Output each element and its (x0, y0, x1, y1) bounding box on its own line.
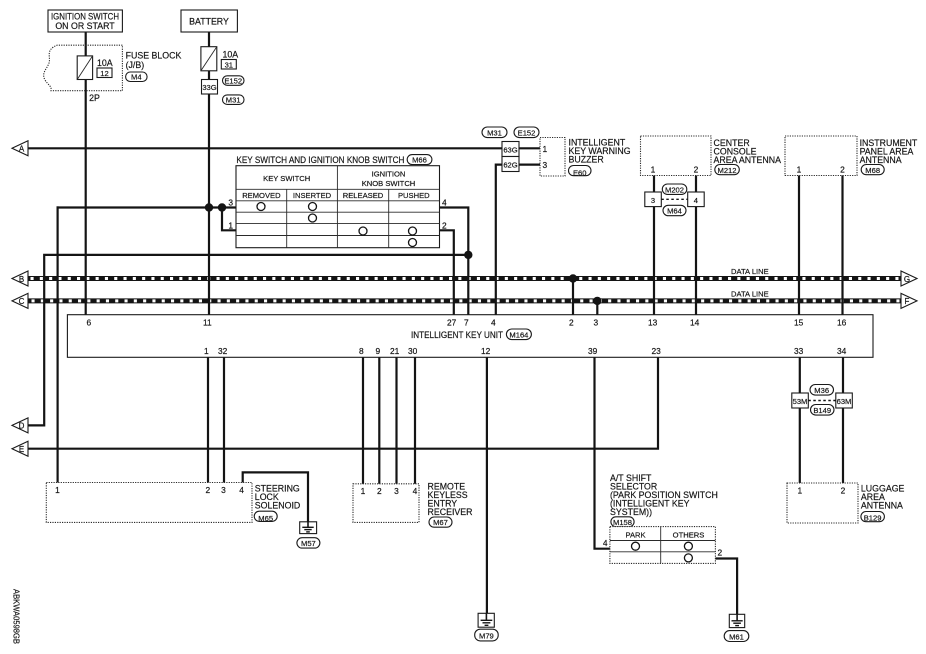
wire key switch pin 3 feed (58, 206, 236, 208)
svg-text:M164: M164 (509, 330, 528, 339)
connectors 63G 62G (482, 127, 539, 172)
svg-text:21: 21 (390, 346, 400, 356)
svg-text:M31: M31 (226, 96, 241, 105)
svg-text:11: 11 (203, 318, 212, 328)
intelligent key unit box M164 (67, 315, 873, 358)
svg-text:4: 4 (413, 486, 418, 496)
svg-text:8: 8 (359, 346, 364, 356)
svg-text:RECEIVER: RECEIVER (428, 507, 473, 517)
svg-text:E152: E152 (224, 77, 242, 86)
svg-text:G: G (904, 275, 910, 284)
wire A-line to 63G (28, 147, 502, 149)
wire key switch pin 4 down to IKU pin 7 (440, 208, 469, 315)
svg-text:3: 3 (543, 160, 548, 170)
svg-text:4: 4 (694, 196, 698, 205)
wire D-arrow riser to pin7 branch (28, 255, 468, 426)
pin 2 label shift selector (718, 548, 723, 558)
svg-text:M66: M66 (412, 156, 427, 165)
junction dot data line 1 at pin 2 (569, 274, 577, 282)
connector arrow C (12, 293, 28, 308)
label FUSE BLOCK (J/B) M4 (126, 51, 182, 82)
wire E-line to IKU pin 23 (28, 357, 658, 448)
svg-text:15: 15 (794, 318, 804, 328)
svg-text:32: 32 (218, 346, 228, 356)
svg-text:9: 9 (376, 346, 381, 356)
svg-text:10A: 10A (223, 50, 239, 60)
svg-text:1: 1 (55, 485, 60, 495)
svg-text:INSERTED: INSERTED (293, 191, 332, 200)
wire key switch pin 2 down to IKU pin 27 (440, 230, 454, 314)
label DATA LINE 1 (731, 267, 769, 276)
pin 4 label key switch (442, 198, 447, 208)
svg-text:7: 7 (464, 318, 469, 328)
svg-text:2P: 2P (89, 93, 100, 103)
svg-text:3: 3 (221, 485, 226, 495)
ground M79 (475, 613, 499, 641)
wire IKU pin 39 to shift selector pin 4 (595, 357, 610, 548)
wire shift selector pin 2 to ground M61 (715, 559, 737, 615)
intelligent key warning buzzer E60 (540, 138, 631, 178)
svg-text:(J/B): (J/B) (126, 60, 145, 70)
center console area antenna M212 (641, 136, 782, 176)
svg-text:31: 31 (225, 61, 233, 70)
wire key switch pin 3 down to solenoid pin 1 (56, 208, 58, 484)
key switch REMOVED contact circle (257, 203, 265, 211)
pin 1 label key switch (228, 220, 233, 230)
svg-text:BUZZER: BUZZER (569, 155, 604, 165)
IKU top pin labels (87, 318, 847, 328)
svg-text:B: B (19, 275, 24, 284)
connector arrow D (12, 418, 28, 433)
svg-text:RELEASED: RELEASED (343, 191, 384, 200)
svg-text:4: 4 (603, 538, 608, 548)
wire IKU pin 9 to receiver pin 2 (378, 357, 380, 484)
svg-text:2: 2 (569, 318, 574, 328)
junction dot pin 7 riser at y255 (464, 251, 472, 259)
svg-text:M158: M158 (613, 518, 632, 527)
svg-text:IGNITION: IGNITION (372, 170, 406, 179)
svg-text:B149: B149 (813, 406, 831, 415)
wire IKU pin 21 to receiver pin 3 (395, 357, 397, 484)
svg-text:INTELLIGENT KEY UNIT: INTELLIGENT KEY UNIT (411, 330, 503, 340)
svg-text:2: 2 (205, 485, 210, 495)
svg-text:AREA ANTENNA: AREA ANTENNA (714, 155, 782, 165)
svg-text:10A: 10A (97, 58, 113, 68)
wire IKU pin 12 to ground M79 (486, 357, 488, 613)
svg-text:62G: 62G (503, 160, 517, 169)
svg-text:PARK: PARK (625, 531, 645, 540)
svg-text:1: 1 (797, 165, 802, 175)
svg-text:KEY SWITCH AND IGNITION KNOB S: KEY SWITCH AND IGNITION KNOB SWITCH (236, 155, 404, 165)
svg-text:4: 4 (442, 198, 447, 208)
knob switch RELEASED contact circle (359, 227, 367, 235)
svg-text:2: 2 (718, 548, 723, 558)
svg-text:12: 12 (481, 346, 491, 356)
svg-text:27: 27 (447, 318, 457, 328)
svg-text:M4: M4 (131, 73, 142, 82)
svg-text:M79: M79 (479, 631, 494, 640)
svg-text:53M: 53M (793, 397, 808, 406)
svg-text:E: E (19, 445, 24, 454)
data line B-G (28, 276, 901, 281)
knob switch PUSHED contact circles (409, 227, 417, 247)
wire IKU pin 1 to solenoid pin 2 (207, 357, 209, 482)
svg-text:KEY SWITCH: KEY SWITCH (263, 174, 310, 183)
wire data line 2 to IKU pin 3 (596, 301, 598, 315)
wire 63G to buzzer pin 1 (519, 147, 540, 149)
svg-text:ABKWA0598GB: ABKWA0598GB (12, 589, 22, 644)
svg-text:63G: 63G (503, 145, 517, 154)
A/T shift selector park position switch table (610, 527, 716, 564)
instrument panel area antenna M68 (785, 136, 918, 176)
svg-text:4: 4 (239, 485, 244, 495)
wire IKU pin 8 to receiver pin 1 (362, 357, 364, 484)
wire key switch branch to pin 1 (222, 208, 236, 231)
wire 62G to IKU pin 4 (496, 165, 502, 315)
svg-text:ANTENNA: ANTENNA (860, 155, 902, 165)
shift selector PARK contact circle (632, 542, 640, 550)
svg-text:1: 1 (797, 486, 802, 496)
svg-text:M65: M65 (258, 514, 273, 523)
svg-text:M68: M68 (865, 166, 880, 175)
svg-text:F: F (905, 297, 910, 306)
svg-text:30: 30 (408, 346, 418, 356)
wire instrument antenna pin2 to IKU pin 16 (841, 176, 843, 315)
svg-text:2: 2 (694, 165, 699, 175)
A/T shift selector label M158 (610, 473, 718, 527)
ground M61 (724, 614, 749, 641)
key switch and ignition knob switch table M66 (236, 166, 440, 248)
svg-text:3: 3 (651, 196, 655, 205)
pin 3 label key switch (228, 198, 233, 208)
svg-text:E152: E152 (518, 128, 536, 137)
svg-text:SOLENOID: SOLENOID (255, 501, 300, 511)
remote keyless entry receiver M67 (353, 482, 472, 528)
svg-text:4: 4 (491, 318, 496, 328)
connector arrow B (12, 271, 28, 286)
svg-text:63M: 63M (837, 397, 852, 406)
svg-text:33G: 33G (202, 83, 216, 92)
wire IKU pin 30 to receiver pin 4 (414, 357, 416, 484)
svg-text:PUSHED: PUSHED (398, 191, 430, 200)
IKU bottom pin labels (204, 346, 847, 356)
shift selector OTHERS contact circles (684, 542, 692, 562)
ground M57 (297, 522, 320, 548)
svg-text:D: D (19, 422, 25, 431)
connector arrow G (901, 271, 917, 286)
svg-text:M64: M64 (667, 207, 682, 216)
svg-text:DATA LINE: DATA LINE (731, 267, 769, 276)
wire battery to IKU pin 11 (208, 32, 210, 315)
svg-text:16: 16 (837, 318, 847, 328)
wire 62G to buzzer pin 3 (519, 164, 540, 166)
svg-text:23: 23 (652, 346, 662, 356)
wire data line 1 to IKU pin 2 (572, 279, 574, 315)
svg-text:ANTENNA: ANTENNA (861, 501, 903, 511)
svg-text:FUSE BLOCK: FUSE BLOCK (126, 51, 182, 61)
battery box (181, 10, 237, 32)
pin 2 label key switch (442, 220, 447, 230)
svg-text:SYSTEM)): SYSTEM)) (610, 507, 652, 517)
wire IKU pin 33 to luggage antenna pin 1 (799, 357, 801, 483)
svg-text:M31: M31 (487, 128, 502, 137)
wire solenoid pin 4 to ground M57 (243, 472, 308, 521)
svg-text:E60: E60 (573, 168, 587, 177)
wire console antenna pin2 to IKU pin 14 (695, 176, 697, 315)
svg-text:OTHERS: OTHERS (673, 531, 705, 540)
svg-text:M202: M202 (665, 185, 684, 194)
connector 33G E152/M31 (202, 76, 245, 105)
svg-text:2: 2 (442, 220, 447, 230)
svg-text:1: 1 (228, 220, 233, 230)
svg-text:2: 2 (377, 486, 382, 496)
connector arrow F (901, 293, 917, 308)
svg-text:BATTERY: BATTERY (189, 17, 229, 27)
svg-text:M61: M61 (729, 632, 744, 641)
svg-text:2: 2 (840, 165, 845, 175)
svg-text:1: 1 (361, 486, 366, 496)
connector arrow A (12, 141, 28, 156)
wire console antenna pin1 to IKU pin 13 (653, 176, 655, 315)
svg-text:1: 1 (651, 165, 656, 175)
svg-text:33: 33 (794, 346, 804, 356)
svg-text:M36: M36 (814, 386, 829, 395)
svg-text:M67: M67 (433, 518, 448, 527)
svg-text:2: 2 (841, 486, 846, 496)
svg-text:IGNITION SWITCH: IGNITION SWITCH (51, 12, 119, 22)
connector arrow E (12, 441, 28, 456)
svg-text:6: 6 (87, 318, 92, 328)
svg-text:M212: M212 (718, 166, 737, 175)
fuse 10A 31 (201, 47, 238, 71)
wire IKU pin 34 to luggage antenna pin 2 (842, 357, 844, 483)
svg-text:1: 1 (204, 346, 209, 356)
svg-text:B129: B129 (864, 513, 882, 522)
svg-text:ON OR START: ON OR START (55, 21, 115, 31)
wire IKU pin 32 to solenoid pin 3 (223, 357, 225, 482)
svg-text:14: 14 (690, 318, 700, 328)
svg-text:3: 3 (394, 486, 399, 496)
wire ignition switch to IKU pin 6 (85, 32, 87, 315)
junction dot data line 2 at pin 3 (593, 297, 601, 305)
svg-text:3: 3 (594, 318, 599, 328)
svg-text:12: 12 (100, 69, 108, 78)
svg-text:39: 39 (588, 346, 598, 356)
pin 4 label shift selector (603, 538, 608, 548)
svg-text:34: 34 (837, 346, 847, 356)
label DATA LINE 2 (731, 290, 769, 299)
junction dot key switch pin1 branch (218, 203, 226, 211)
svg-text:13: 13 (648, 318, 658, 328)
steering lock solenoid M65 (46, 483, 300, 523)
svg-text:3: 3 (228, 198, 233, 208)
luggage area antenna B129 (787, 483, 905, 523)
fuse block M4 (44, 45, 123, 90)
svg-text:KNOB SWITCH: KNOB SWITCH (362, 179, 416, 188)
svg-text:M57: M57 (301, 539, 316, 548)
key switch INSERTED contact circles (309, 203, 317, 223)
svg-text:1: 1 (543, 144, 548, 154)
data line C-F (28, 298, 901, 303)
label 2P (89, 93, 100, 103)
wire instrument antenna pin1 to IKU pin 15 (798, 176, 800, 315)
svg-text:A: A (19, 145, 25, 154)
ignition switch box (48, 10, 122, 32)
svg-text:REMOVED: REMOVED (242, 191, 281, 200)
watermark ABKWA0598GB (12, 589, 22, 644)
junction dot key switch feed at battery wire (205, 203, 213, 211)
connectors 53M/63M M36 B149 (792, 385, 853, 416)
connectors 3/4 M202 M64 (645, 184, 704, 216)
svg-text:DATA LINE: DATA LINE (731, 290, 769, 299)
svg-text:C: C (19, 297, 25, 306)
key switch table title M66 (236, 155, 432, 165)
